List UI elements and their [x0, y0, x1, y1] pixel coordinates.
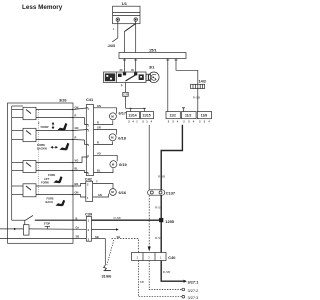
wire color label R-SB	[163, 270, 170, 274]
svg-text:1255: 1255	[165, 219, 174, 224]
wire color label Y	[158, 175, 165, 179]
svg-text:R: R	[97, 141, 99, 145]
switch row 2 (fore/aft)	[12, 128, 73, 141]
svg-text:4: 4	[208, 119, 210, 123]
svg-text:2: 2	[88, 123, 90, 127]
svg-text:J4/3: J4/3	[108, 43, 116, 48]
switch row 3 (lift)	[12, 161, 73, 173]
svg-text:SB: SB	[117, 235, 121, 239]
svg-text:M: M	[111, 190, 114, 194]
wire colors left of C41	[75, 106, 79, 171]
pin label 4	[113, 27, 115, 31]
svg-text:Y: Y	[96, 180, 98, 184]
wire pair 2	[73, 129, 86, 132]
wire color label R-SB	[114, 216, 121, 220]
motor 6/17	[109, 111, 126, 120]
wire fuse down to 11/8	[197, 89, 199, 112]
svg-text:3/26: 3/26	[59, 98, 67, 103]
svg-text:R-SB: R-SB	[158, 175, 165, 179]
mechanical link dashed	[37, 110, 39, 196]
svg-text:STOP: STOP	[44, 224, 51, 226]
svg-text:GN: GN	[75, 126, 79, 130]
row 2 icon: text FORW/BACKW, arrow, seat	[37, 143, 47, 151]
svg-text:GN: GN	[97, 104, 101, 108]
title Less Memory	[22, 4, 63, 11]
row 1 icon: text FORW arrows, seat	[38, 122, 49, 130]
svg-text:R-SB: R-SB	[155, 206, 162, 210]
svg-text:3/27:1: 3/27:1	[188, 279, 200, 284]
wire C40 pin3 dashed to 3/27:3	[139, 261, 183, 297]
motor 6/18	[109, 134, 127, 141]
svg-text:M: M	[112, 162, 115, 166]
wire stub into 11/15	[143, 108, 145, 111]
motor 6/19 wires	[94, 155, 118, 161]
svg-text:GR: GR	[97, 126, 101, 130]
wire C40 pin2 dashed to 3/27:2	[149, 261, 182, 290]
wire pair 3	[73, 157, 86, 163]
wire bold C39 to 1255	[92, 219, 160, 221]
bus bar 15/1	[119, 48, 186, 59]
stub above 11/2 b	[183, 108, 185, 112]
svg-text:6/16: 6/16	[119, 190, 127, 195]
module edge pin ticks	[72, 109, 73, 111]
svg-text:14/2: 14/2	[199, 79, 207, 84]
wire color label GR	[123, 92, 129, 96]
svg-text:6/17: 6/17	[119, 111, 127, 116]
svg-text:BL: BL	[75, 167, 79, 171]
svg-text:P: P	[121, 84, 123, 88]
svg-text:6: 6	[88, 171, 90, 175]
svg-text:4: 4	[193, 119, 195, 123]
svg-text:6/19: 6/19	[119, 162, 127, 167]
wire 11/2 down jog left bold	[161, 125, 182, 190]
switch row 1 (height)	[12, 107, 73, 119]
svg-text:Less Memory: Less Memory	[22, 4, 63, 11]
pin numbers under connectors	[128, 119, 210, 123]
wire bar to ignition switch pin 2	[135, 59, 137, 73]
seat glyph row2	[60, 143, 70, 151]
svg-text:11/2: 11/2	[170, 113, 176, 117]
svg-text:2: 2	[137, 256, 139, 260]
connector C41	[86, 97, 94, 176]
wire left terminal down	[117, 21, 119, 38]
svg-text:C137: C137	[166, 190, 175, 195]
bar pin ticks	[123, 59, 126, 61]
svg-text:FORW: FORW	[37, 143, 45, 147]
svg-text:R-SB: R-SB	[155, 236, 162, 240]
svg-text:C41: C41	[86, 97, 94, 102]
svg-text:3: 3	[188, 119, 190, 123]
svg-text:GN: GN	[98, 193, 102, 197]
svg-text:1: 1	[87, 196, 89, 200]
svg-text:M: M	[111, 115, 114, 119]
ignition switch 3/1	[104, 72, 151, 83]
svg-text:3: 3	[88, 128, 90, 132]
svg-text:4: 4	[88, 143, 90, 147]
connector C39	[85, 212, 93, 242]
svg-text:3: 3	[204, 119, 206, 123]
wire diagonal from right terminal	[125, 24, 136, 32]
svg-text:R: R	[75, 136, 77, 140]
stop symbol	[44, 224, 51, 226]
wire bar to ignition switch pin 1	[124, 59, 126, 73]
svg-text:3: 3	[148, 256, 150, 260]
svg-text:2: 2	[168, 119, 170, 123]
resistor below switch	[24, 225, 30, 235]
connector C137	[148, 190, 176, 196]
connector C42	[85, 176, 93, 201]
svg-text:15/1: 15/1	[149, 48, 157, 53]
svg-text:11/15: 11/15	[142, 113, 150, 117]
svg-text:30: 30	[131, 68, 134, 72]
svg-text:VO: VO	[97, 151, 101, 155]
wire 11/15 down to C137	[148, 125, 150, 190]
svg-text:SB: SB	[140, 280, 144, 284]
pin label P	[121, 84, 123, 88]
svg-text:6/18: 6/18	[118, 135, 126, 140]
svg-text:1: 1	[136, 119, 138, 123]
wire bar right to connector 11/2	[167, 59, 169, 112]
seat glyph row4	[56, 200, 66, 206]
svg-text:FORW: FORW	[41, 125, 49, 129]
svg-text:BN: BN	[75, 182, 79, 186]
svg-text:FORW: FORW	[41, 181, 49, 185]
svg-text:GN: GN	[75, 106, 79, 110]
wire C137 left down dashed	[148, 195, 150, 246]
switch pack connector 11/2 a	[166, 112, 180, 119]
svg-text:1/1: 1/1	[122, 1, 128, 6]
svg-text:31/66: 31/66	[102, 273, 113, 278]
switch pack connector 11/14	[127, 112, 140, 119]
motor 6/19	[110, 161, 128, 168]
ground branch dashed	[107, 240, 114, 265]
svg-text:2: 2	[183, 119, 185, 123]
svg-text:30: 30	[120, 68, 123, 72]
svg-text:3: 3	[172, 119, 174, 123]
svg-text:3/1: 3/1	[149, 65, 155, 70]
wire bar right to fuse 14/2	[176, 59, 198, 85]
svg-text:1: 1	[146, 119, 148, 123]
arrow into C40	[148, 247, 151, 252]
wire bus corner to limit switch	[12, 219, 26, 221]
row 3 icon: text FORE/LIFT, seat	[41, 173, 55, 185]
svg-text:R-SB: R-SB	[193, 96, 200, 100]
svg-text:2: 2	[87, 183, 89, 187]
svg-text:4: 4	[132, 119, 134, 123]
wire pair 1	[73, 108, 86, 110]
svg-text:3: 3	[142, 119, 144, 123]
pin label 30	[120, 68, 123, 72]
switch pack connector 11/8	[197, 112, 211, 119]
svg-text:11/2: 11/2	[185, 113, 191, 117]
svg-text:11/14: 11/14	[128, 113, 136, 117]
junction 1255	[159, 218, 174, 224]
motor 6/16	[110, 189, 127, 196]
svg-text:3/27:3: 3/27:3	[188, 295, 199, 300]
svg-text:SB: SB	[95, 235, 99, 239]
wire C39 pin3 ground	[92, 238, 106, 240]
connector C40	[132, 253, 176, 261]
svg-text:GN: GN	[75, 191, 79, 195]
wire C40 pin1 bold to 3/27:1	[161, 261, 183, 282]
switch pack connector 11/15	[141, 112, 154, 119]
svg-text:1: 1	[160, 256, 162, 260]
seat switch module 3/26	[8, 98, 74, 244]
svg-text:3/27:2: 3/27:2	[188, 288, 199, 293]
fuse pointer J4/3	[112, 38, 118, 42]
wire color label R-SB	[155, 206, 162, 210]
svg-text:FORE: FORE	[47, 196, 54, 200]
svg-text:4: 4	[151, 119, 153, 123]
svg-text:BACKW: BACKW	[37, 147, 47, 151]
svg-text:SB: SB	[76, 235, 80, 239]
switch pack connector 11/2 b	[182, 112, 197, 119]
svg-text:4: 4	[177, 119, 179, 123]
fuse 14/2	[191, 79, 207, 89]
second feed line with arrow	[0, 228, 24, 230]
svg-text:2: 2	[128, 119, 130, 123]
svg-text:11/8: 11/8	[201, 113, 207, 117]
motor 6/18 wires	[94, 130, 117, 135]
svg-text:B: B	[76, 216, 78, 220]
wire ignition switch output down	[125, 83, 127, 109]
internal supply bus	[11, 106, 13, 220]
wire horizontal to switch connectors	[126, 107, 145, 109]
svg-text:BACK: BACK	[46, 200, 54, 204]
svg-text:R-SB: R-SB	[114, 216, 121, 220]
wire stub into 11/14	[130, 108, 132, 111]
svg-text:BL: BL	[97, 169, 101, 173]
svg-text:LIFT: LIFT	[44, 177, 50, 181]
svg-text:M: M	[111, 136, 114, 140]
ground point 31/66	[102, 265, 113, 278]
limit switch arm	[26, 215, 33, 220]
svg-text:5: 5	[88, 154, 90, 158]
row 4 icon: text FORE/BACK, seat	[46, 196, 54, 204]
bold wire to C39 pin1	[35, 219, 87, 221]
svg-text:F: F	[38, 122, 40, 126]
wire color label R-SB below 1255	[155, 236, 162, 240]
svg-text:C39: C39	[85, 212, 93, 217]
svg-text:2: 2	[199, 119, 201, 123]
pin label 30	[131, 68, 134, 72]
seat glyph row3	[54, 176, 63, 183]
motor 6/17 wires	[94, 108, 117, 114]
ignition key cylinder circle 3/1	[149, 65, 160, 83]
wires module to C42	[73, 184, 86, 187]
third feed line	[0, 238, 86, 240]
wire right terminal down to bar	[135, 21, 137, 52]
svg-text:R: R	[97, 120, 99, 124]
svg-text:C40: C40	[168, 255, 175, 260]
switch row 4 (tilt)	[12, 184, 73, 197]
wire color label R-SB	[193, 96, 200, 100]
svg-text:4: 4	[113, 27, 115, 31]
wire down to bar	[124, 32, 126, 53]
wire color label SB	[140, 280, 144, 284]
svg-text:R: R	[75, 114, 77, 118]
battery/junction box 1/1	[113, 1, 140, 24]
svg-text:FORE: FORE	[48, 173, 55, 177]
svg-text:Gn: Gn	[76, 225, 80, 229]
svg-text:R-SB: R-SB	[163, 270, 170, 274]
wire C39 pin2 to arrow	[92, 229, 117, 231]
motor 6/16 wires	[93, 184, 113, 189]
dashed wire pin3 to C40	[112, 239, 139, 253]
seat glyph row1	[58, 123, 68, 131]
svg-text:VO: VO	[75, 159, 79, 163]
svg-text:C42: C42	[85, 176, 93, 181]
wire C137 right down bold	[160, 195, 162, 252]
